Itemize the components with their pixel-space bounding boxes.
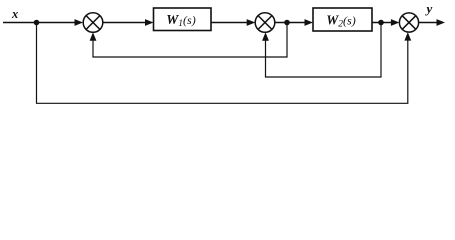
arrowhead into U3	[391, 19, 400, 26]
feedforward wire loop C: from dot A down, right, up into U3	[37, 23, 408, 104]
wire U1 to block W1	[103, 22, 147, 24]
svg-text:x: x	[11, 7, 18, 21]
wire W1 to summing junction U2	[211, 22, 248, 24]
arrowhead into W1	[145, 19, 154, 26]
wire input x to summing junction U1	[3, 22, 76, 24]
feedback wire loop A: from dot B down, left, up into U1	[93, 23, 287, 58]
arrowhead up into U2 bottom	[262, 32, 269, 41]
arrowhead up into U1 bottom	[90, 32, 97, 41]
svg-text:y: y	[425, 1, 433, 16]
output arrowhead	[437, 19, 446, 26]
wire U2 to block W2	[275, 22, 306, 24]
junction dot B after U2	[284, 20, 290, 26]
feedback wire loop B: from dot C down, left, up into U2	[266, 23, 382, 78]
summing junction U2 (circle with X)	[255, 13, 275, 33]
wire W2 to summing junction U3	[372, 22, 393, 24]
arrowhead into U1	[75, 19, 84, 26]
block W1	[154, 8, 212, 31]
arrowhead up into U3 bottom	[404, 32, 411, 41]
summing junction U3 (circle with X)	[399, 13, 418, 32]
junction dot C after W2	[378, 20, 384, 26]
summing junction U1 (circle with X)	[83, 13, 103, 33]
wire U3 to output y	[419, 22, 438, 24]
junction dot A on input line	[34, 20, 40, 26]
arrowhead into U2	[247, 19, 256, 26]
arrowhead into W2	[305, 19, 314, 26]
block W2	[313, 8, 372, 31]
